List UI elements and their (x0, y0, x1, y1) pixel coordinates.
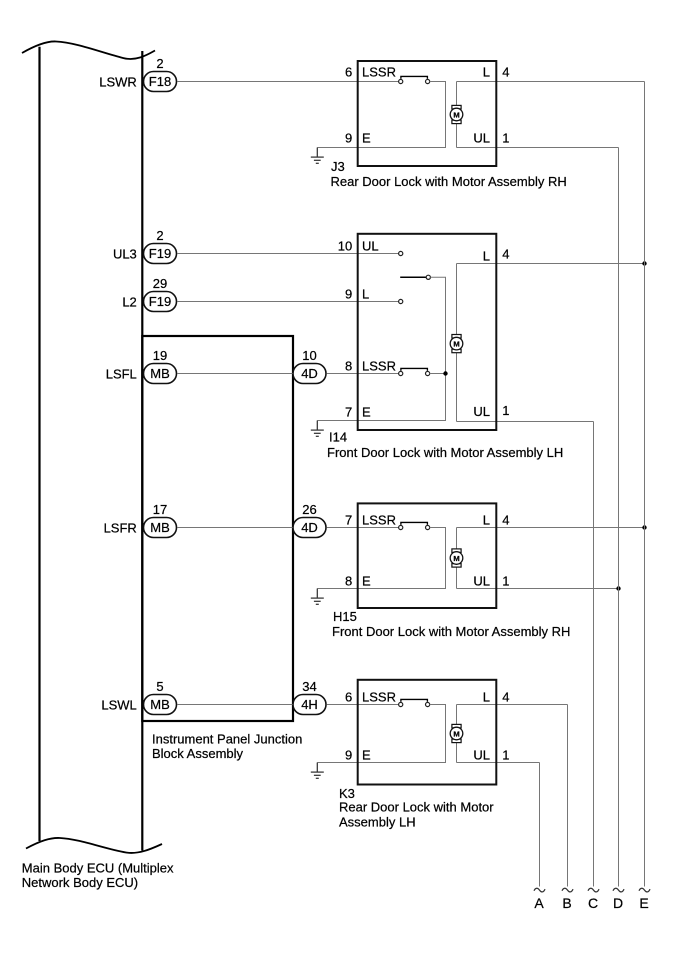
ground (H15) (311, 589, 324, 605)
I14 pin 1 number (502, 403, 509, 418)
J3 component label (331, 159, 567, 189)
motor branch wire UL side (K3) (457, 762, 540, 764)
svg-text:E: E (362, 748, 371, 763)
motor M (J3) (450, 105, 463, 123)
motor M (K3) (450, 724, 463, 742)
svg-text:LSFR: LSFR (104, 520, 137, 535)
node LSFL label (106, 366, 137, 381)
H15 pin 8 number (345, 574, 352, 589)
svg-text:10: 10 (302, 348, 316, 363)
Instrument Panel Junction Block Assembly box (142, 336, 293, 721)
motor branch wire L side (J3) (457, 82, 645, 148)
svg-text:E: E (362, 131, 371, 146)
K3 terminal name L (483, 690, 490, 705)
connector MB (144, 364, 177, 384)
Main Body ECU label (22, 860, 174, 890)
J3 terminal name UL (473, 131, 490, 146)
connector 4D pin 26 number (302, 502, 316, 517)
motor branch wire UL side (J3) (457, 147, 619, 149)
svg-text:M: M (453, 554, 459, 563)
connector F19 (144, 244, 177, 264)
motor M (H15) (450, 549, 463, 567)
I14 pin 8 number (345, 359, 352, 374)
svg-text:6: 6 (345, 65, 352, 80)
junction dot UL wire (H15) (616, 586, 620, 590)
svg-text:6: 6 (345, 690, 352, 705)
svg-text:7: 7 (345, 405, 352, 420)
svg-text:1: 1 (502, 403, 509, 418)
svg-text:9: 9 (345, 287, 352, 302)
svg-text:E: E (362, 574, 371, 589)
I14 component label (327, 430, 563, 461)
connector 4H pin 34 number (302, 679, 316, 694)
vertical wire B (567, 705, 569, 887)
svg-text:LSSR: LSSR (362, 359, 396, 374)
wire F19 to I14 pin 9 (L) (177, 301, 399, 303)
svg-text:A: A (534, 895, 544, 911)
connector 4D pin 10 number (302, 348, 316, 363)
J3 terminal name L (483, 65, 490, 80)
svg-text:29: 29 (153, 276, 167, 291)
wire switch output to E net (J3) (317, 82, 445, 148)
svg-text:4: 4 (502, 690, 509, 705)
svg-text:M: M (453, 339, 459, 348)
wire break symbol E (639, 888, 650, 892)
connector 4H (293, 695, 326, 715)
svg-text:J3: J3 (331, 159, 345, 174)
Main Body ECU bus right edge (141, 51, 143, 851)
svg-text:17: 17 (153, 502, 167, 517)
svg-text:F18: F18 (149, 74, 171, 89)
svg-text:E: E (362, 405, 371, 420)
K3 pin 1 number (502, 748, 509, 763)
svg-text:4: 4 (502, 247, 509, 262)
K3 pin 4 number (502, 690, 509, 705)
ground (I14) (311, 421, 324, 437)
door lock switch H15 contact circles (399, 525, 430, 529)
motor branch wire UL side (I14) (457, 421, 594, 423)
H15 component label (332, 609, 570, 639)
svg-text:8: 8 (345, 574, 352, 589)
svg-text:Network Body ECU): Network Body ECU) (22, 875, 138, 890)
svg-text:26: 26 (302, 502, 316, 517)
svg-text:L: L (483, 249, 490, 264)
svg-text:MB: MB (150, 366, 170, 381)
wire MB to 4D (LSFL row) (177, 373, 293, 375)
junction dot L wire (H15) (642, 525, 646, 529)
svg-text:L: L (483, 690, 490, 705)
net label A (534, 895, 544, 911)
J3 pin 6 number (345, 65, 352, 80)
connector MB pin 19 number (153, 348, 167, 363)
H15 terminal name L (483, 513, 490, 528)
svg-text:19: 19 (153, 348, 167, 363)
net label D (613, 895, 623, 911)
door lock switch H15 blade (401, 522, 428, 524)
J3 terminal name E (362, 131, 371, 146)
connector MB (144, 518, 177, 538)
motor branch wire L side (K3) (457, 705, 568, 763)
I14 terminal name L (left) (362, 287, 369, 302)
svg-text:4D: 4D (301, 366, 318, 381)
svg-text:7: 7 (345, 513, 352, 528)
door lock switch K3 blade (401, 699, 428, 701)
wire break symbol B (562, 888, 573, 892)
I14 terminal name UL (right) (473, 404, 490, 419)
connector MB pin 5 number (156, 679, 163, 694)
vertical wire C (593, 422, 595, 887)
node LSWL label (101, 697, 136, 712)
J3 terminal name LSSR (362, 65, 396, 80)
svg-text:UL: UL (473, 404, 490, 419)
svg-text:C: C (588, 895, 598, 911)
svg-text:4: 4 (502, 65, 509, 80)
I14 box outline (358, 234, 497, 430)
H15 pin 7 number (345, 513, 352, 528)
svg-text:L: L (362, 287, 369, 302)
I14 pin 4 number (502, 247, 509, 262)
door lock switch J3 contact circles (399, 79, 430, 83)
svg-text:Block Assembly: Block Assembly (152, 746, 244, 761)
svg-text:1: 1 (502, 574, 509, 589)
vertical wire E (644, 82, 646, 887)
motor branch wire UL side (H15) (457, 588, 619, 590)
H15 box outline (358, 503, 497, 608)
connector F18 (144, 72, 177, 92)
motor M (I14) (450, 335, 463, 353)
svg-text:Front Door Lock with Motor Ass: Front Door Lock with Motor Assembly RH (332, 624, 570, 639)
wire changeover pivot to E net (I14) (317, 277, 445, 420)
I14 LSSR switch blade (401, 368, 428, 370)
K3 terminal name E (362, 748, 371, 763)
K3 terminal name UL (473, 748, 490, 763)
J3 box outline (358, 61, 497, 166)
svg-text:LSWL: LSWL (101, 697, 136, 712)
svg-text:8: 8 (345, 359, 352, 374)
H15 terminal name E (362, 574, 371, 589)
svg-text:F19: F19 (149, 246, 171, 261)
connector 4D (293, 364, 326, 384)
svg-text:4D: 4D (301, 520, 318, 535)
svg-text:MB: MB (150, 520, 170, 535)
bus top break wave (22, 41, 155, 59)
H15 pin 4 number (502, 513, 509, 528)
I14 terminal name UL (left) (362, 239, 379, 254)
svg-text:LSFL: LSFL (106, 366, 137, 381)
I14 L contact circle (399, 299, 403, 303)
motor branch wire L side (I14) (457, 264, 645, 422)
ground (K3) (311, 763, 324, 779)
K3 terminal name LSSR (362, 690, 396, 705)
svg-text:LSWR: LSWR (99, 74, 137, 89)
I14 changeover pivot circle (426, 275, 430, 279)
svg-text:LSSR: LSSR (362, 513, 396, 528)
net label B (562, 895, 571, 911)
net label C (588, 895, 598, 911)
connector F18 pin 2 number (156, 56, 163, 71)
ground (J3) (311, 148, 324, 164)
K3 box outline (358, 680, 497, 785)
svg-text:L2: L2 (122, 294, 136, 309)
connector F19 (144, 292, 177, 312)
K3 pin 9 number (345, 748, 352, 763)
svg-text:Front Door Lock with Motor Ass: Front Door Lock with Motor Assembly LH (327, 445, 563, 460)
H15 terminal name LSSR (362, 513, 396, 528)
wire MB to 4H (LSWL row) (177, 704, 293, 706)
svg-text:9: 9 (345, 748, 352, 763)
svg-text:4H: 4H (301, 697, 318, 712)
I14 pin 10 number (338, 239, 352, 254)
node LSFR label (104, 520, 137, 535)
svg-text:2: 2 (156, 228, 163, 243)
svg-text:Rear Door Lock with Motor: Rear Door Lock with Motor (339, 800, 494, 815)
svg-text:4: 4 (502, 513, 509, 528)
J3 pin 1 number (502, 131, 509, 146)
wire switch output to E net (K3) (317, 705, 445, 763)
K3 pin 6 number (345, 690, 352, 705)
svg-text:M: M (453, 729, 459, 738)
door lock switch J3 blade (401, 76, 428, 78)
svg-text:34: 34 (302, 679, 316, 694)
svg-text:UL: UL (362, 239, 379, 254)
wire break symbol C (588, 888, 599, 892)
svg-text:H15: H15 (333, 609, 357, 624)
wire break symbol A (534, 888, 545, 892)
vertical wire D (618, 148, 620, 887)
J3 pin 9 number (345, 131, 352, 146)
svg-text:LSSR: LSSR (362, 690, 396, 705)
svg-text:L: L (483, 65, 490, 80)
bus bottom break wave (26, 838, 162, 853)
svg-text:F19: F19 (149, 294, 171, 309)
svg-text:10: 10 (338, 239, 352, 254)
I14 LSSR switch contact circles (399, 371, 430, 375)
svg-text:Main Body ECU (Multiplex: Main Body ECU (Multiplex (22, 860, 174, 875)
wire F18 to J3 pin 6 (LSSR) (177, 81, 399, 83)
svg-text:L: L (483, 513, 490, 528)
connector F19 pin 2 number (156, 228, 163, 243)
svg-text:1: 1 (502, 748, 509, 763)
wire 4D to I14 pin 8 (LSSR) (327, 373, 399, 375)
I14 UL contact circle (399, 251, 403, 255)
I14 terminal name L (right) (483, 249, 490, 264)
wire switch output to E net (H15) (317, 528, 445, 589)
I14 pin 7 number (345, 405, 352, 420)
svg-text:D: D (613, 895, 623, 911)
svg-text:LSSR: LSSR (362, 65, 396, 80)
wire 4H to K3 pin 6 (LSSR) (327, 704, 399, 706)
junction dot LSSR/E net (I14) (443, 371, 447, 375)
wire break symbol D (613, 888, 624, 892)
wire F19 to I14 pin 10 (UL) (177, 253, 399, 255)
svg-text:MB: MB (150, 697, 170, 712)
vertical wire A (539, 763, 541, 887)
I14 pin 9 number (345, 287, 352, 302)
svg-text:Rear Door Lock with Motor Asse: Rear Door Lock with Motor Assembly RH (331, 174, 567, 189)
H15 terminal name UL (473, 574, 490, 589)
svg-text:1: 1 (502, 131, 509, 146)
connector 4D (293, 518, 326, 538)
I14 changeover switch blade (400, 276, 426, 278)
node LSWR label (99, 74, 137, 89)
J3 pin 4 number (502, 65, 509, 80)
svg-text:M: M (453, 110, 459, 119)
svg-text:B: B (562, 895, 571, 911)
svg-text:UL3: UL3 (113, 246, 137, 261)
I14 terminal name LSSR (362, 359, 396, 374)
wire MB to 4D (LSFR row) (177, 527, 293, 529)
I14 terminal name E (362, 405, 371, 420)
connector MB pin 17 number (153, 502, 167, 517)
svg-text:Instrument Panel Junction: Instrument Panel Junction (152, 732, 302, 747)
svg-text:UL: UL (473, 574, 490, 589)
K3 component label (339, 786, 494, 829)
wire LSSR switch to junction (I14) (430, 373, 446, 375)
connector F19 pin 29 number (153, 276, 167, 291)
node UL3 label (113, 246, 137, 261)
svg-text:9: 9 (345, 131, 352, 146)
svg-text:I14: I14 (329, 430, 347, 445)
node L2 label (122, 294, 136, 309)
svg-text:2: 2 (156, 56, 163, 71)
svg-text:Assembly LH: Assembly LH (339, 814, 416, 829)
svg-text:5: 5 (156, 679, 163, 694)
Main Body ECU bus left edge (38, 47, 40, 841)
H15 pin 1 number (502, 574, 509, 589)
Instrument Panel Junction Block Assembly label (152, 732, 302, 762)
motor branch wire L side (H15) (457, 528, 645, 589)
junction dot L wire on net E (I14) (642, 261, 646, 265)
svg-text:UL: UL (473, 748, 490, 763)
connector MB (144, 695, 177, 715)
door lock switch K3 contact circles (399, 702, 430, 706)
wire 4D to H15 pin 7 (LSSR) (327, 527, 399, 529)
net label E (639, 895, 648, 911)
svg-text:UL: UL (473, 131, 490, 146)
svg-text:E: E (639, 895, 648, 911)
